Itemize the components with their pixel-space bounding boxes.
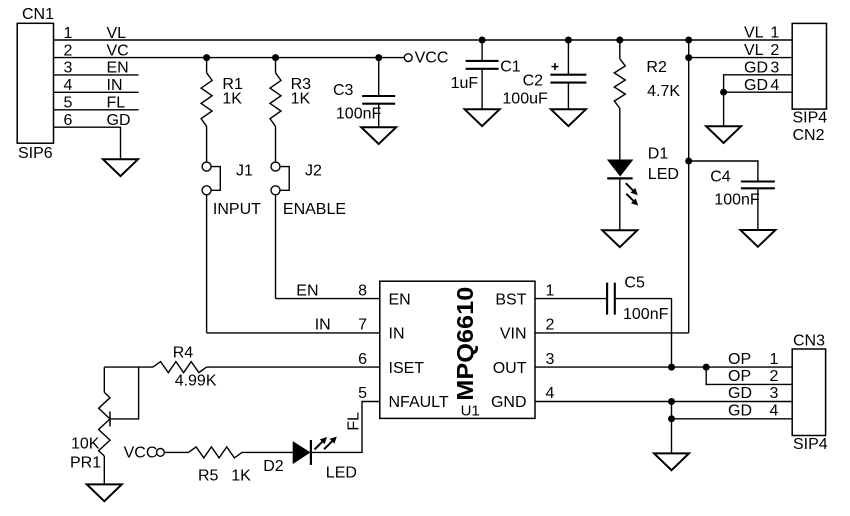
label D1 LED bbox=[648, 166, 679, 183]
capacitor C3 bbox=[362, 96, 395, 104]
svg-text:5: 5 bbox=[64, 95, 73, 112]
svg-text:GD: GD bbox=[744, 59, 768, 76]
svg-text:100nF: 100nF bbox=[336, 105, 382, 122]
net label IN at U1 bbox=[315, 317, 331, 334]
label R3 value 1K bbox=[291, 91, 311, 108]
svg-text:VCC: VCC bbox=[415, 49, 449, 66]
label R5 value 1K bbox=[231, 468, 251, 485]
svg-text:4: 4 bbox=[770, 77, 779, 94]
CN3 pin number 3 bbox=[769, 385, 778, 402]
node C5 on OUT net bbox=[668, 364, 675, 371]
svg-text:INPUT: INPUT bbox=[213, 201, 261, 218]
CN1 pin number 2 bbox=[64, 42, 73, 59]
wire VCC to R5 bbox=[164, 451, 188, 453]
svg-text:10K: 10K bbox=[71, 436, 100, 453]
LED D1 anode triangle bbox=[607, 160, 634, 177]
svg-text:1: 1 bbox=[769, 351, 778, 368]
svg-text:R2: R2 bbox=[646, 59, 667, 76]
wire CN3 pin 4 bbox=[672, 418, 793, 420]
svg-text:R4: R4 bbox=[173, 344, 194, 361]
label SIP4 at CN2 bbox=[793, 110, 828, 127]
jumper J1 top pin bbox=[202, 162, 211, 171]
U1 pin number 4 bbox=[546, 385, 555, 402]
svg-text:IN: IN bbox=[389, 326, 405, 343]
CN3 pin number 1 bbox=[769, 351, 778, 368]
label INPUT bbox=[213, 201, 261, 218]
svg-text:100uF: 100uF bbox=[502, 91, 548, 108]
net label EN at CN1 bbox=[107, 60, 129, 77]
svg-text:EN: EN bbox=[296, 282, 318, 299]
net label IN at CN1 bbox=[107, 77, 123, 94]
U1 pin label ISET bbox=[389, 360, 425, 377]
jumper J2 top pin bbox=[271, 162, 280, 171]
label R2 value 4.7K bbox=[647, 83, 680, 100]
node C2 top on VL net bbox=[565, 37, 572, 44]
svg-text:3: 3 bbox=[546, 351, 555, 368]
svg-text:R5: R5 bbox=[198, 468, 219, 485]
wire R2 top lead bbox=[619, 40, 621, 59]
node R3 top on VC net bbox=[272, 54, 279, 61]
CN3 pin number 4 bbox=[769, 403, 778, 420]
svg-text:GND: GND bbox=[491, 394, 527, 411]
label C1 value 1uF bbox=[451, 75, 479, 92]
net label GD at CN2 pin 4 bbox=[744, 77, 768, 94]
wire R3 top lead bbox=[275, 58, 277, 73]
svg-text:IN: IN bbox=[315, 317, 331, 334]
capacitor C4 bbox=[741, 182, 775, 189]
svg-text:100nF: 100nF bbox=[714, 192, 760, 209]
node GND to ground tap bbox=[668, 398, 675, 405]
svg-text:4: 4 bbox=[64, 77, 73, 94]
wire CN2 pin 2 bbox=[689, 57, 793, 59]
ground D1 bbox=[602, 230, 637, 247]
wire CN1 pin 5 stub FL bbox=[54, 109, 139, 111]
VCC terminal circle bottom bbox=[157, 449, 165, 457]
wire U1 BST to C5 bbox=[535, 298, 607, 300]
U1 pin number 2 bbox=[546, 317, 555, 334]
resistor R4 bbox=[153, 362, 207, 373]
svg-text:BST: BST bbox=[495, 291, 526, 308]
svg-text:8: 8 bbox=[358, 282, 367, 299]
svg-text:LED: LED bbox=[648, 166, 679, 183]
node OP2 tap bbox=[703, 364, 710, 371]
wire CN2 pin 3 to ground bbox=[724, 75, 793, 126]
label R1 value 1K bbox=[222, 91, 242, 108]
net label EN at U1 bbox=[296, 282, 318, 299]
svg-text:ENABLE: ENABLE bbox=[283, 201, 346, 218]
svg-text:FL: FL bbox=[107, 95, 126, 112]
svg-text:SIP4: SIP4 bbox=[793, 110, 828, 127]
wire GND net U1 pin4 to CN3 pin3 bbox=[535, 401, 792, 403]
svg-text:1: 1 bbox=[64, 25, 73, 42]
wire CN1 pin 4 stub IN bbox=[54, 91, 139, 93]
svg-text:VL: VL bbox=[744, 42, 764, 59]
svg-text:4.99K: 4.99K bbox=[175, 373, 217, 390]
PR1 wiper tick bbox=[109, 412, 111, 427]
svg-text:VL: VL bbox=[744, 25, 764, 42]
D1 light arrow 1 bbox=[626, 183, 638, 195]
jumper J2 shunt bbox=[280, 167, 289, 191]
wire CN1 pin 3 stub EN bbox=[54, 74, 139, 76]
U1 pin label NFAULT bbox=[389, 394, 449, 411]
U1 pin number 3 bbox=[546, 351, 555, 368]
svg-text:VC: VC bbox=[107, 42, 129, 59]
wire R2 to D1 bbox=[619, 108, 621, 159]
svg-text:MPQ6610: MPQ6610 bbox=[452, 287, 478, 401]
label D1 bbox=[648, 146, 669, 163]
net label VL at CN2 pin 2 bbox=[744, 42, 764, 59]
svg-text:EN: EN bbox=[389, 291, 411, 308]
svg-text:NFAULT: NFAULT bbox=[389, 394, 449, 411]
wire ISET left segment bbox=[104, 366, 153, 368]
svg-text:LED: LED bbox=[326, 464, 357, 481]
D2 light arrow 1 bbox=[315, 437, 328, 450]
label R4 bbox=[173, 344, 194, 361]
wire D1 to ground bbox=[619, 178, 621, 230]
label J1 bbox=[236, 163, 253, 180]
wire R1 top lead bbox=[206, 58, 208, 73]
label CN2 bbox=[793, 127, 825, 144]
CN2 pin number 4 bbox=[770, 77, 779, 94]
svg-text:1K: 1K bbox=[291, 91, 311, 108]
svg-text:EN: EN bbox=[107, 60, 129, 77]
node R2 top on VL net bbox=[616, 37, 623, 44]
svg-text:6: 6 bbox=[64, 112, 73, 129]
svg-text:C4: C4 bbox=[710, 169, 731, 186]
label C5 value 100nF bbox=[623, 306, 669, 323]
CN1 pin number 5 bbox=[64, 95, 73, 112]
label J2 bbox=[305, 163, 322, 180]
LED D1 cathode bar bbox=[607, 177, 632, 179]
ground C1 bbox=[465, 109, 500, 126]
label C2 value 100uF bbox=[502, 91, 548, 108]
resistor R3 bbox=[270, 73, 281, 127]
wire CN1 pin 6 to ground bbox=[54, 127, 121, 159]
CN1 pin number 4 bbox=[64, 77, 73, 94]
capacitor C5 bbox=[607, 283, 615, 315]
ground C2 bbox=[551, 109, 586, 126]
wire U1 VIN bbox=[535, 332, 689, 334]
svg-text:1uF: 1uF bbox=[451, 75, 479, 92]
CN2 pin number 3 bbox=[770, 59, 779, 76]
wire C3 bottom lead bbox=[378, 104, 380, 128]
svg-text:1: 1 bbox=[770, 25, 779, 42]
node C3 top on VC net bbox=[375, 54, 382, 61]
wire D2 to NFAULT bbox=[311, 402, 380, 453]
label C2 bbox=[523, 72, 544, 89]
resistor R2 bbox=[614, 59, 625, 108]
U1 pin label BST bbox=[495, 291, 526, 308]
label PR1 value 10K bbox=[71, 436, 100, 453]
capacitor C1 bbox=[466, 61, 499, 69]
wire OP2 branch bbox=[706, 367, 792, 384]
svg-text:GD: GD bbox=[728, 385, 752, 402]
svg-text:D1: D1 bbox=[648, 146, 669, 163]
capacitor C2 polarized bbox=[550, 75, 586, 83]
svg-text:IN: IN bbox=[107, 77, 123, 94]
svg-text:5: 5 bbox=[358, 385, 367, 402]
CN1 pin number 3 bbox=[64, 60, 73, 77]
wire CN2 pin 4 bbox=[724, 91, 793, 93]
svg-text:CN2: CN2 bbox=[793, 127, 825, 144]
label ENABLE bbox=[283, 201, 346, 218]
svg-text:1K: 1K bbox=[231, 468, 251, 485]
net label FL rotated bbox=[346, 412, 363, 431]
label CN3 bbox=[793, 332, 825, 349]
label R4 value 4.99K bbox=[175, 373, 217, 390]
label CN1 bbox=[22, 6, 54, 23]
svg-text:C5: C5 bbox=[624, 275, 645, 292]
CN2 pin number 2 bbox=[770, 42, 779, 59]
svg-text:C3: C3 bbox=[333, 82, 354, 99]
wire IN net to U1 pin 7 bbox=[207, 332, 380, 334]
label C3 value 100nF bbox=[336, 105, 382, 122]
svg-text:J1: J1 bbox=[236, 163, 253, 180]
U1 pin label EN bbox=[389, 291, 411, 308]
svg-text:C2: C2 bbox=[523, 72, 544, 89]
D2 light arrow 2 bbox=[324, 437, 337, 450]
net label VC at CN1 bbox=[107, 42, 129, 59]
label C4 value 100nF bbox=[714, 192, 760, 209]
svg-text:D2: D2 bbox=[263, 458, 284, 475]
connector CN1 bbox=[17, 23, 53, 143]
label C3 bbox=[333, 82, 354, 99]
wire C2 top lead bbox=[567, 40, 569, 75]
wire C5 to OUT net bbox=[615, 299, 672, 368]
net label VCC top bbox=[415, 49, 449, 66]
wire GND vertical to ground bbox=[671, 402, 673, 454]
label R2 bbox=[646, 59, 667, 76]
net label VL at CN2 pin 1 bbox=[744, 25, 764, 42]
U1 pin label VIN bbox=[500, 326, 527, 343]
wire C4 bottom lead bbox=[757, 188, 759, 230]
potentiometer PR1 bbox=[99, 392, 110, 456]
node GD4 tap bbox=[668, 415, 675, 422]
label D2 LED bbox=[326, 464, 357, 481]
label MPQ6610 bbox=[452, 287, 478, 401]
wire EN net to U1 pin 8 bbox=[276, 298, 380, 300]
svg-text:OP: OP bbox=[728, 368, 751, 385]
ground CN2 bbox=[706, 126, 741, 143]
node CN2 pin 4 junction bbox=[720, 89, 727, 96]
label SIP4 at CN3 bbox=[793, 436, 828, 453]
net label GD at CN3 pin 4 bbox=[728, 403, 752, 420]
wire R5 to D2 bbox=[242, 451, 293, 453]
svg-text:PR1: PR1 bbox=[70, 454, 101, 471]
label C5 bbox=[624, 275, 645, 292]
svg-text:SIP4: SIP4 bbox=[793, 436, 828, 453]
svg-text:GD: GD bbox=[107, 112, 131, 129]
svg-text:FL: FL bbox=[346, 412, 363, 431]
CN1 pin number 6 bbox=[64, 112, 73, 129]
svg-text:3: 3 bbox=[769, 385, 778, 402]
ground CN3 bbox=[654, 453, 689, 470]
node VL to vertical branch bbox=[685, 37, 692, 44]
C2 plus sign bbox=[552, 63, 559, 70]
U1 pin number 5 bbox=[358, 385, 367, 402]
svg-text:6: 6 bbox=[358, 351, 367, 368]
U1 pin label IN bbox=[389, 326, 405, 343]
svg-text:1K: 1K bbox=[222, 91, 242, 108]
node C4 tap bbox=[685, 158, 692, 165]
net label OP at CN3 pin 1 bbox=[728, 351, 751, 368]
svg-text:4: 4 bbox=[769, 403, 778, 420]
jumper J2 bottom pin bbox=[271, 186, 280, 195]
ground CN1 bbox=[103, 159, 138, 176]
D1 light arrow 2 bbox=[626, 194, 638, 206]
wire C4 branch bbox=[689, 161, 758, 182]
VCC terminal circle bbox=[404, 54, 412, 62]
wire C1 top lead bbox=[481, 40, 483, 61]
svg-text:C1: C1 bbox=[500, 59, 521, 76]
svg-text:CN3: CN3 bbox=[793, 332, 825, 349]
U1 pin label OUT bbox=[493, 360, 527, 377]
svg-text:4: 4 bbox=[546, 385, 555, 402]
LED D2 anode triangle bbox=[293, 441, 311, 464]
U1 pin number 7 bbox=[358, 317, 367, 334]
svg-text:7: 7 bbox=[358, 317, 367, 334]
connector CN3 bbox=[792, 349, 825, 436]
label D2 bbox=[263, 458, 284, 475]
U1 pin label GND bbox=[491, 394, 527, 411]
label C1 bbox=[500, 59, 521, 76]
svg-text:2: 2 bbox=[769, 368, 778, 385]
node R1 top on VC net bbox=[203, 54, 210, 61]
svg-text:U1: U1 bbox=[461, 402, 480, 419]
wire OUT net U1 pin3 to CN3 pin1 bbox=[535, 366, 792, 368]
wire ISET to U1 pin 6 bbox=[207, 366, 380, 368]
net label VL at CN1 bbox=[107, 25, 127, 42]
svg-text:1: 1 bbox=[546, 282, 555, 299]
ground C4 bbox=[740, 230, 775, 247]
U1 pin number 8 bbox=[358, 282, 367, 299]
U1 pin number 6 bbox=[358, 351, 367, 368]
svg-text:2: 2 bbox=[770, 42, 779, 59]
svg-text:J2: J2 bbox=[305, 163, 322, 180]
svg-text:VL: VL bbox=[107, 25, 127, 42]
label R5 bbox=[198, 468, 219, 485]
op-amp U1 MPQ6610 body bbox=[380, 281, 535, 418]
net label FL at CN1 bbox=[107, 95, 126, 112]
svg-text:100nF: 100nF bbox=[623, 306, 669, 323]
label C4 bbox=[710, 169, 731, 186]
wire VL net (CN1 pin 1 to CN2 pin 1) bbox=[54, 39, 793, 41]
svg-text:4.7K: 4.7K bbox=[647, 83, 680, 100]
label R1 bbox=[222, 76, 243, 93]
svg-text:CN1: CN1 bbox=[22, 6, 54, 23]
connector CN2 bbox=[792, 23, 826, 109]
svg-text:GD: GD bbox=[728, 403, 752, 420]
ground PR1 bbox=[87, 484, 122, 501]
wire C3 top lead bbox=[378, 58, 380, 96]
resistor R5 bbox=[189, 447, 243, 458]
CN1 pin number 1 bbox=[64, 25, 73, 42]
CN2 pin number 1 bbox=[770, 25, 779, 42]
svg-text:OUT: OUT bbox=[493, 360, 527, 377]
U1 pin number 1 bbox=[546, 282, 555, 299]
svg-text:GD: GD bbox=[744, 77, 768, 94]
wire J2 to EN line bbox=[275, 195, 277, 299]
jumper J1 shunt bbox=[211, 167, 220, 191]
net label GD at CN2 pin 3 bbox=[744, 59, 768, 76]
svg-text:VIN: VIN bbox=[500, 326, 527, 343]
net label GD at CN3 pin 3 bbox=[728, 385, 752, 402]
wire VC net (CN1 pin 2 to VCC terminal) bbox=[54, 57, 405, 59]
wire R1 to J1 bbox=[206, 126, 208, 162]
wire ISET corner to PR1 bbox=[103, 367, 105, 392]
svg-text:SIP6: SIP6 bbox=[18, 145, 53, 162]
net label OP at CN3 pin 2 bbox=[728, 368, 751, 385]
jumper J1 bottom pin bbox=[202, 186, 211, 195]
label R3 bbox=[291, 76, 312, 93]
svg-text:ISET: ISET bbox=[389, 360, 425, 377]
wire VL vertical branch to VIN bbox=[688, 40, 690, 333]
svg-text:OP: OP bbox=[728, 351, 751, 368]
label U1 bbox=[461, 402, 480, 419]
ground C3 bbox=[361, 127, 396, 144]
svg-text:VCC: VCC bbox=[124, 444, 158, 461]
svg-text:2: 2 bbox=[64, 42, 73, 59]
wire PR1 to ground bbox=[103, 456, 105, 484]
label PR1 bbox=[70, 454, 101, 471]
LED D2 cathode bar bbox=[310, 440, 312, 465]
node C1 top on VL net bbox=[479, 37, 486, 44]
net label VCC bottom bbox=[124, 444, 158, 461]
CN3 pin number 2 bbox=[769, 368, 778, 385]
wire R3 to J2 bbox=[275, 126, 277, 162]
svg-text:3: 3 bbox=[770, 59, 779, 76]
wire J1 to IN line bbox=[206, 195, 208, 333]
resistor R1 bbox=[201, 73, 212, 127]
wire C1 bottom lead bbox=[481, 69, 483, 110]
net label GD at CN1 bbox=[107, 112, 131, 129]
svg-text:3: 3 bbox=[64, 60, 73, 77]
svg-text:2: 2 bbox=[546, 317, 555, 334]
node CN2 pin 2 tap bbox=[685, 54, 692, 61]
wire C2 bottom lead bbox=[567, 83, 569, 110]
label SIP6 bbox=[18, 145, 53, 162]
PR1 wiper connection bbox=[110, 367, 139, 419]
